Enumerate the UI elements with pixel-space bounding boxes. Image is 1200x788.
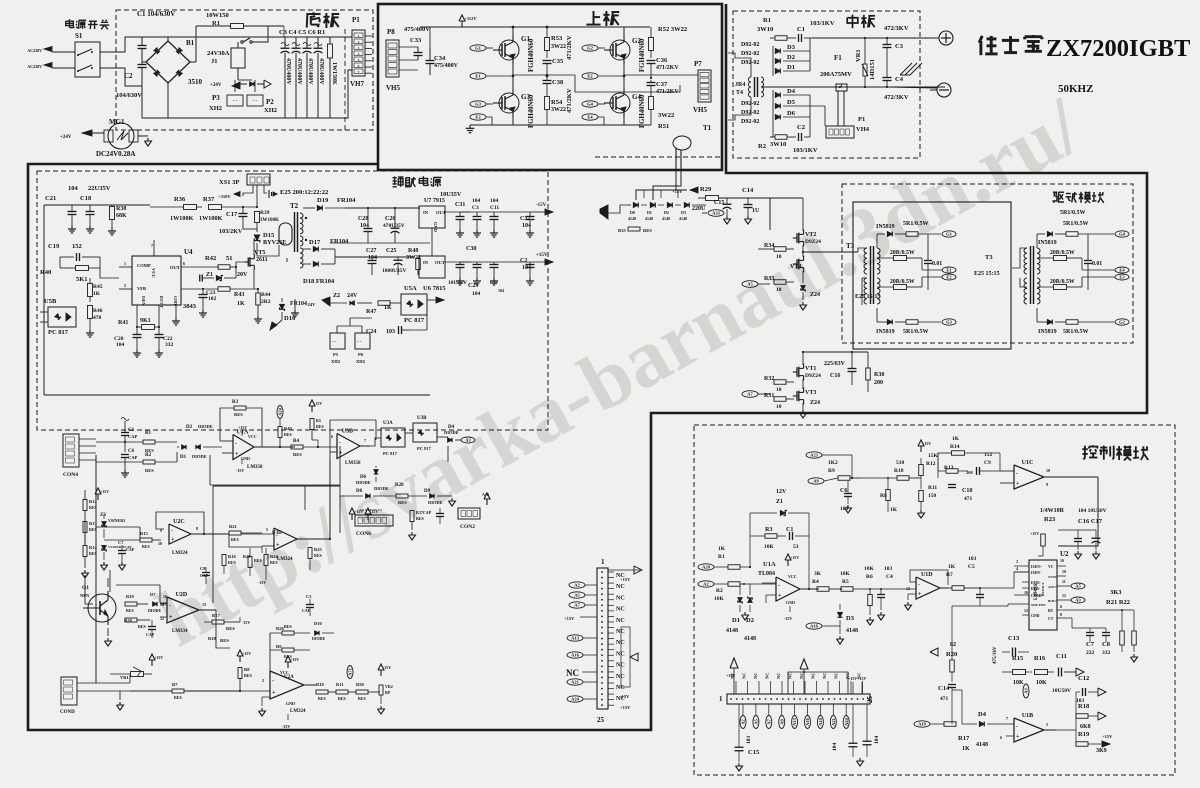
capacitor C37: [647, 82, 656, 84]
svg-text:CON4: CON4: [63, 472, 78, 478]
svg-text:VT1: VT1: [805, 366, 816, 372]
svg-text:U3B: U3B: [417, 416, 427, 421]
svg-text:8: 8: [196, 526, 198, 531]
resistor R13: [83, 522, 87, 533]
dashed box bottom-board: [116, 10, 373, 130]
wire left bus: [95, 455, 97, 683]
tag A23: [806, 452, 822, 458]
svg-text:104: 104: [490, 198, 499, 204]
svg-text:A2: A2: [703, 582, 709, 587]
svg-text:24V30A: 24V30A: [207, 50, 230, 57]
svg-text:-15V: -15V: [620, 694, 630, 699]
wires igbt left: [486, 47, 493, 49]
svg-text:A5: A5: [1075, 584, 1081, 589]
opamp U1A: [233, 435, 254, 460]
svg-text:C2: C2: [520, 258, 527, 264]
svg-text:OUT: OUT: [435, 260, 445, 265]
svg-text:AC220V: AC220V: [27, 64, 42, 69]
svg-text:-15V: -15V: [236, 468, 244, 473]
svg-text:152: 152: [72, 243, 82, 250]
svg-text:+24V: +24V: [60, 135, 72, 140]
svg-text:R18: R18: [208, 636, 216, 641]
dashed box driver-module: [842, 184, 1133, 343]
regulator U6 7815: [419, 256, 445, 278]
svg-text:5R1/0.5W: 5R1/0.5W: [1063, 329, 1089, 335]
resistor R11c: [336, 690, 348, 694]
gate tag E3: [470, 114, 486, 120]
svg-text:10: 10: [1062, 569, 1066, 574]
svg-text:VH5: VH5: [386, 84, 401, 92]
svg-text:IN5819: IN5819: [1038, 240, 1057, 246]
mosfet VT5: [244, 261, 248, 263]
svg-text:+24V: +24V: [210, 83, 222, 88]
svg-text:ISEN-: ISEN-: [1031, 571, 1042, 575]
tag A3b: [1023, 684, 1029, 698]
svg-text:68K: 68K: [116, 213, 127, 219]
db25h top stubs: [735, 681, 737, 694]
svg-text:2R2: 2R2: [261, 299, 271, 305]
svg-text:DIODE: DIODE: [356, 480, 371, 485]
svg-text:D16: D16: [284, 315, 296, 322]
svg-text:RES: RES: [284, 432, 293, 437]
svg-text:Z1: Z1: [776, 499, 783, 505]
svg-text:E4: E4: [1119, 268, 1125, 273]
resistor R31: [774, 397, 786, 402]
svg-text:R18: R18: [1078, 703, 1090, 710]
svg-text:4148: 4148: [744, 636, 756, 642]
svg-text:RES: RES: [314, 553, 323, 558]
svg-text:R13: R13: [944, 465, 954, 471]
svg-text:OUT: OUT: [436, 210, 446, 215]
diode cluster 4148: [633, 203, 638, 208]
diode small: [250, 82, 254, 86]
svg-text:MG1: MG1: [109, 118, 125, 126]
svg-text:C11: C11: [490, 205, 499, 211]
svg-text:A10: A10: [482, 492, 489, 497]
svg-text:C1 104/630V: C1 104/630V: [137, 10, 175, 18]
capacitor C2: [798, 133, 800, 141]
svg-text:R25: R25: [314, 547, 322, 552]
svg-text:5R1/0.5W: 5R1/0.5W: [903, 329, 929, 335]
connector P1 VH4: [826, 126, 854, 138]
svg-text:P3: P3: [212, 94, 220, 102]
svg-text:Z24: Z24: [810, 400, 820, 406]
svg-text:6: 6: [1060, 604, 1062, 609]
svg-text:475/400V: 475/400V: [434, 63, 459, 69]
svg-text:-: -: [169, 604, 171, 610]
svg-text:-15V: -15V: [282, 724, 290, 729]
svg-text:LM358: LM358: [345, 461, 361, 466]
svg-text:R4: R4: [293, 439, 300, 444]
svg-text:VT5: VT5: [254, 250, 265, 256]
svg-text:C7: C7: [118, 540, 124, 545]
wire vt5: [286, 258, 288, 262]
resistor R49: [277, 406, 283, 419]
connector P6 XH2: [355, 333, 370, 349]
ic U2 3525: [1029, 560, 1057, 630]
svg-text:D2: D2: [186, 425, 193, 430]
relay coil J1: [231, 48, 245, 68]
wire u7 rail: [469, 211, 471, 213]
wire B1 top rail: [142, 36, 345, 38]
resistor R32: [774, 380, 786, 385]
chassis mark: [900, 63, 912, 75]
svg-text:U2: U2: [1060, 550, 1069, 558]
svg-text:+: +: [272, 690, 276, 696]
svg-text:D1: D1: [787, 64, 795, 71]
svg-text:RES: RES: [284, 624, 293, 629]
svg-text:NC: NC: [616, 674, 625, 680]
svg-text:A5: A5: [574, 593, 580, 598]
svg-text:U2A: U2A: [284, 675, 294, 680]
svg-text:53: 53: [793, 544, 799, 550]
svg-text:10K: 10K: [764, 544, 775, 550]
capacitor C18: [86, 211, 95, 213]
resistor R12: [83, 500, 87, 511]
pot VR1b: [131, 672, 144, 677]
svg-text:CAP: CAP: [128, 455, 137, 460]
svg-text:RES: RES: [254, 558, 263, 563]
svg-text:DIODE: DIODE: [148, 608, 161, 613]
capacitor C10c: [436, 513, 444, 515]
wire u2b net: [229, 533, 262, 547]
svg-text:D15: D15: [263, 232, 275, 239]
gate tag G3: [470, 101, 486, 107]
pot VR2: [379, 685, 383, 695]
svg-text:VR1: VR1: [120, 675, 129, 680]
svg-text:R54: R54: [551, 99, 563, 106]
svg-text:CAP: CAP: [302, 608, 311, 613]
opamp U1C: [1014, 465, 1044, 489]
svg-text:-: -: [272, 678, 274, 684]
svg-text:10K: 10K: [864, 566, 875, 572]
svg-text:RT/CT: RT/CT: [159, 296, 164, 308]
svg-text:C30: C30: [466, 246, 476, 252]
opamp U3B: [337, 434, 360, 459]
svg-text:C9: C9: [984, 460, 991, 466]
svg-text:1K: 1K: [948, 564, 956, 570]
svg-text:D18 FR104: D18 FR104: [303, 278, 335, 285]
svg-text:1000U35V: 1000U35V: [382, 268, 406, 274]
svg-text:472/3KV: 472/3KV: [884, 94, 909, 101]
svg-text:4148: 4148: [726, 628, 738, 634]
tag A33: [708, 210, 724, 217]
svg-text:103/1KV: 103/1KV: [810, 20, 835, 27]
svg-text:R5: R5: [842, 579, 849, 585]
svg-text:D3: D3: [681, 210, 686, 215]
wire q1 base: [85, 603, 93, 605]
svg-text:11: 11: [1062, 579, 1066, 584]
svg-text:10: 10: [158, 541, 162, 546]
svg-text:C10: C10: [962, 488, 972, 494]
svg-text:10K: 10K: [1036, 680, 1047, 686]
svg-text:DIODE: DIODE: [192, 454, 207, 459]
svg-text:E3: E3: [1119, 275, 1125, 280]
svg-text:A3: A3: [465, 438, 471, 443]
svg-text:D92-02: D92-02: [741, 60, 759, 66]
svg-text:VCC: VCC: [280, 670, 289, 675]
svg-text:G1: G1: [475, 46, 482, 51]
svg-text:1K: 1K: [962, 746, 970, 752]
svg-text:S1: S1: [75, 32, 83, 40]
svg-text:D1: D1: [647, 210, 652, 215]
opamp U1A ctrl: [776, 577, 800, 601]
svg-text:R36: R36: [174, 196, 186, 203]
svg-text:IN: IN: [423, 210, 429, 215]
svg-text:3: 3: [1016, 559, 1018, 564]
svg-text:C14: C14: [938, 685, 950, 692]
svg-text:XH2: XH2: [331, 359, 341, 364]
svg-text:AOUT: AOUT: [1048, 585, 1059, 589]
svg-text:-15V: -15V: [314, 401, 322, 406]
svg-text:C14: C14: [742, 187, 754, 194]
svg-text:R3: R3: [765, 527, 772, 533]
svg-text:E2: E2: [587, 74, 593, 79]
opamp U1D: [916, 577, 940, 599]
svg-text:3W22: 3W22: [658, 112, 674, 119]
svg-text:10U50V: 10U50V: [1052, 688, 1071, 694]
svg-text:C37: C37: [656, 81, 668, 88]
svg-text:A24: A24: [844, 717, 849, 725]
svg-text:A16: A16: [571, 653, 579, 658]
motor ground: [138, 135, 148, 137]
diode D16: [280, 304, 285, 311]
resistor R53: [545, 38, 550, 51]
svg-text:P7: P7: [694, 60, 702, 68]
resistor R44 2R2: [256, 293, 261, 305]
svg-text:R8: R8: [880, 493, 887, 499]
title qudongmokuai: [1053, 192, 1058, 201]
svg-text:82: 82: [950, 642, 956, 648]
svg-text:R21 R22: R21 R22: [1106, 599, 1130, 606]
svg-text:+15V: +15V: [242, 651, 251, 656]
svg-text:FR104: FR104: [330, 238, 349, 245]
svg-text:1: 1: [601, 558, 605, 566]
opamp U1B: [1014, 718, 1044, 742]
svg-text:G3: G3: [475, 102, 482, 107]
svg-text:475/16V: 475/16V: [993, 646, 998, 664]
svg-text:C35: C35: [552, 58, 564, 65]
svg-text:NC: NC: [811, 673, 816, 680]
optocoupler U3Bb: [413, 423, 437, 442]
gate tag E1: [470, 73, 486, 79]
svg-text:GND: GND: [433, 222, 438, 233]
resistor R1 1W150K: [329, 37, 331, 44]
wire vt24 out: [803, 251, 850, 253]
-15V small: [918, 440, 924, 452]
svg-text:1K: 1K: [952, 436, 960, 442]
resistor R30 200: [866, 368, 871, 380]
svg-text:ISEN: ISEN: [141, 296, 146, 305]
svg-text:JR4: JR4: [735, 82, 745, 88]
svg-text:D10: D10: [314, 621, 322, 626]
arrow tri: [264, 80, 271, 88]
svg-text:CAP: CAP: [128, 434, 137, 439]
svg-text:C13: C13: [1008, 635, 1020, 642]
minus terminal: [937, 83, 951, 97]
svg-text:1K: 1K: [384, 305, 392, 311]
svg-text:A9: A9: [779, 719, 784, 725]
svg-text:A21: A21: [571, 680, 579, 685]
svg-text:5: 5: [358, 58, 360, 62]
wire ctrl bus right: [1097, 477, 1099, 546]
svg-text:R20: R20: [124, 618, 132, 623]
svg-text:ISEN+: ISEN+: [1031, 565, 1042, 569]
svg-text:-: -: [1016, 724, 1018, 730]
resistor R8k: [886, 490, 891, 501]
svg-text:0.01: 0.01: [932, 261, 942, 267]
svg-text:7: 7: [151, 243, 153, 248]
svg-text:+15V: +15V: [154, 655, 163, 660]
svg-text:R7: R7: [946, 572, 953, 578]
svg-text:4148: 4148: [846, 628, 858, 634]
svg-text:4148: 4148: [628, 216, 636, 221]
svg-text:G4: G4: [1119, 232, 1126, 237]
svg-text:12: 12: [1024, 608, 1028, 613]
svg-text:150: 150: [928, 493, 937, 499]
svg-text:- -: - -: [357, 340, 362, 345]
resistor R16c: [222, 555, 226, 566]
svg-text:A2: A2: [741, 719, 746, 725]
svg-text:XH2: XH2: [264, 107, 277, 114]
svg-text:U2D: U2D: [176, 592, 188, 598]
svg-text:Z3: Z3: [100, 513, 106, 518]
svg-text:C7: C7: [1086, 641, 1095, 648]
svg-text:14D151: 14D151: [869, 59, 876, 80]
svg-text:R6: R6: [866, 574, 873, 580]
opamp U2A: [270, 671, 304, 699]
svg-text:XH2: XH2: [209, 105, 222, 112]
svg-text:Q1: Q1: [82, 585, 89, 591]
svg-text:R49: R49: [284, 426, 292, 431]
svg-text:471/2KV: 471/2KV: [656, 65, 679, 71]
svg-text:R30: R30: [874, 372, 884, 378]
svg-text:10: 10: [776, 287, 782, 293]
svg-text:CON2: CON2: [460, 524, 475, 530]
igbt G2: [610, 40, 630, 60]
capacitor C1: [798, 34, 800, 42]
svg-text:C18: C18: [80, 195, 92, 202]
svg-text:A3: A3: [1075, 598, 1081, 603]
svg-text:R47: R47: [366, 309, 376, 315]
gate tag E4: [582, 114, 598, 120]
svg-text:R48: R48: [408, 248, 418, 254]
svg-text:+: +: [171, 537, 175, 543]
svg-text:+15V: +15V: [790, 555, 799, 560]
resistor R35: [600, 205, 608, 219]
svg-text:3K3: 3K3: [1110, 589, 1122, 596]
svg-text:C25: C25: [386, 248, 396, 254]
mosfet VT1: [793, 371, 797, 373]
svg-text:G2: G2: [1119, 320, 1126, 325]
svg-text:XS1 3P: XS1 3P: [219, 179, 239, 186]
svg-text:472/3KV: 472/3KV: [884, 25, 909, 32]
capacitor C35: [543, 60, 552, 62]
svg-text:51: 51: [226, 255, 233, 262]
svg-text:470U400V: 470U400V: [285, 58, 291, 85]
svg-text:NC: NC: [753, 673, 758, 680]
svg-text:NC: NC: [616, 651, 625, 657]
svg-text:NC: NC: [834, 673, 839, 680]
svg-text:D5: D5: [787, 99, 796, 106]
svg-text:C36: C36: [656, 57, 668, 64]
svg-text:U7 7915: U7 7915: [424, 198, 445, 204]
svg-text:+24V: +24V: [305, 302, 316, 307]
svg-text:R45: R45: [93, 284, 103, 290]
svg-text:A7: A7: [766, 719, 771, 725]
svg-text:D2: D2: [787, 54, 795, 61]
svg-text:AC220V: AC220V: [27, 48, 42, 53]
svg-text:Z1: Z1: [206, 272, 213, 278]
svg-text:+15V: +15V: [536, 253, 548, 258]
svg-text:RES: RES: [416, 516, 425, 521]
main title jiashibao: [979, 36, 982, 43]
svg-text:C29: C29: [468, 283, 478, 289]
-15V arrow: [530, 211, 545, 213]
svg-text:C2 V1 F2 N V2: C2 V1 F2 N V2: [360, 508, 382, 512]
driver right block parts: [1047, 232, 1052, 237]
svg-text:R1: R1: [763, 17, 771, 24]
svg-text:VT2: VT2: [805, 232, 816, 238]
svg-text:16: 16: [1060, 558, 1064, 563]
svg-text:P2: P2: [266, 98, 274, 106]
svg-text:104: 104: [832, 743, 838, 752]
svg-text:GND: GND: [173, 296, 178, 305]
driver left block parts: [887, 232, 892, 237]
resistor R33: [774, 280, 786, 285]
svg-text:R42: R42: [205, 255, 216, 262]
regulator U7 7915: [419, 206, 445, 228]
svg-text:10W150: 10W150: [206, 12, 229, 19]
capacitor C3 470U400V: [284, 37, 286, 48]
svg-text:10: 10: [776, 404, 782, 410]
wire sec1: [345, 207, 420, 209]
plus terminal: [939, 31, 953, 45]
svg-text:- -: - -: [332, 340, 337, 345]
resistor R19b: [125, 602, 137, 606]
svg-text:COND: COND: [60, 710, 75, 715]
svg-text:R19: R19: [1078, 731, 1090, 738]
svg-text:RES: RES: [293, 452, 302, 457]
svg-text:R14: R14: [950, 444, 960, 450]
svg-text:R41: R41: [118, 320, 128, 326]
svg-text:20R/0.5W: 20R/0.5W: [1050, 250, 1075, 256]
svg-text:OUT: OUT: [170, 265, 180, 270]
svg-text:NC: NC: [616, 618, 625, 624]
svg-text:104: 104: [472, 198, 481, 204]
svg-text:10U35V: 10U35V: [440, 191, 462, 198]
svg-text:10K: 10K: [840, 571, 851, 577]
svg-text:7: 7: [364, 438, 366, 443]
resistor R20b: [125, 618, 137, 622]
svg-text:5R1/0.5W: 5R1/0.5W: [903, 221, 929, 227]
dashed box mid-board: [733, 11, 920, 158]
svg-text:C5: C5: [968, 564, 975, 570]
svg-text:3W10: 3W10: [757, 26, 773, 33]
svg-text:LM358: LM358: [247, 465, 263, 470]
svg-text:R40: R40: [40, 269, 51, 276]
svg-text:1K: 1K: [93, 291, 101, 297]
svg-text:VC: VC: [1048, 565, 1054, 569]
svg-text:R23: R23: [1044, 516, 1056, 523]
igbt G3: [499, 93, 519, 113]
optocoupler U3A: [381, 428, 405, 447]
gate tag G4: [582, 101, 598, 107]
db25h arrows: [733, 668, 735, 694]
svg-text:VCC: VCC: [788, 574, 797, 579]
svg-text:R50: R50: [356, 682, 364, 687]
svg-text:D17: D17: [309, 239, 321, 246]
